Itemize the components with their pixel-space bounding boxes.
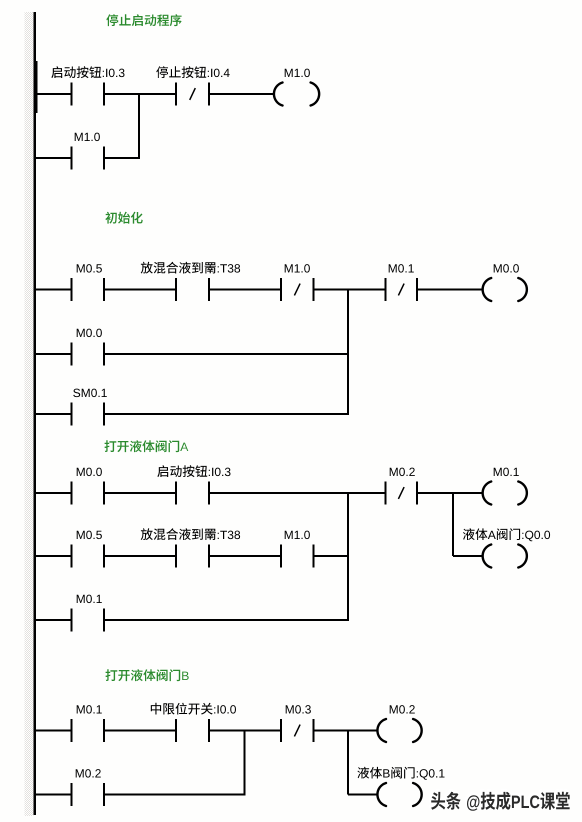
label M0.5 n3	[77, 531, 102, 540]
coil drop wire network4	[347, 731, 378, 796]
label M0.1 coil	[494, 468, 519, 477]
contact 放混合液到罱 T38	[175, 545, 210, 568]
label M1.0 NC	[285, 264, 310, 273]
contact M0.2	[71, 783, 106, 806]
contact M0.3 (NC)	[280, 719, 315, 742]
contact M0.1	[71, 609, 106, 632]
network 1 title 停止启动程序	[106, 14, 181, 26]
contact M0.2 (NC)	[385, 482, 419, 505]
branch wire network2 vertical	[347, 290, 349, 415]
coil drop wire network3	[452, 493, 484, 557]
label M0.0 coil	[494, 264, 519, 273]
editor left margin strip	[25, 12, 34, 816]
label M0.2 coil	[390, 705, 415, 714]
wire rung4	[34, 353, 349, 355]
coil 液体B阀门 Q0.1	[377, 783, 421, 806]
label M0.2 contact n4	[76, 769, 101, 778]
wire rung6	[34, 492, 484, 494]
label M1.0 contact n3	[285, 531, 310, 540]
wire rung2	[34, 157, 140, 159]
wire rung1	[34, 93, 275, 95]
coil 液体A阀门 Q0.0	[483, 545, 527, 568]
coil M1.0	[274, 83, 319, 106]
label M1.0 contact	[75, 133, 100, 142]
contact 中限位开关 I0.0	[175, 719, 210, 742]
contact 启动按钮 I0.3	[175, 482, 210, 505]
contact M0.1 (NC)	[385, 278, 419, 301]
network 2 title 初始化	[105, 212, 142, 224]
wire rung8	[34, 619, 349, 621]
coil M0.0	[483, 278, 527, 301]
label 液体B阀门:Q0.1	[357, 767, 444, 780]
contact 放混合液到罱 T38	[175, 278, 210, 301]
contact SM0.1	[71, 403, 106, 426]
label 启动按钮:I0.3	[51, 66, 124, 78]
label 液体A阀门:Q0.0	[463, 528, 550, 541]
label M0.1 NC	[389, 264, 414, 273]
label 启动按钮:I0.3 n3	[157, 465, 230, 477]
label M0.0 contact	[77, 329, 102, 338]
label M0.1 contact n4	[77, 705, 102, 714]
contact M0.5	[71, 278, 106, 301]
contact M1.0	[71, 147, 106, 170]
network 3 title 打开液体阀门A	[105, 440, 189, 452]
network 4 title 打开液体阀门B	[106, 669, 189, 681]
wire rung7	[34, 555, 349, 557]
label M0.5	[77, 264, 102, 273]
contact M0.1	[71, 719, 106, 742]
contact 启动按钮 I0.3	[71, 83, 106, 106]
branch wire network3 vertical	[347, 493, 349, 620]
label 中限位开关:I0.0	[151, 703, 236, 715]
label 放混合液到罱:T38	[141, 262, 240, 274]
wire rung10	[34, 794, 246, 796]
label M1.0 coil	[285, 69, 310, 78]
contact M1.0	[280, 545, 315, 568]
wire rung9	[34, 730, 378, 732]
contact M0.0	[71, 482, 106, 505]
left power rail	[34, 12, 37, 815]
watermark 头条@技成PLC课堂	[430, 790, 570, 811]
label 停止按钮:I0.4	[156, 66, 229, 78]
wire rung5	[34, 413, 349, 415]
label M0.1 contact n3	[77, 595, 102, 604]
contact M1.0 (NC)	[280, 278, 315, 301]
wire rung3	[34, 289, 484, 291]
power rail thick segment (network 1)	[34, 61, 38, 113]
branch wire network4 mid vertical	[244, 731, 246, 795]
contact M0.5	[71, 545, 106, 568]
contact 停止按钮 I0.4 (NC)	[175, 83, 210, 106]
branch wire network1 vertical	[138, 94, 140, 158]
coil M0.1	[483, 482, 527, 505]
label M0.3 NC	[286, 705, 311, 714]
label SM0.1	[73, 389, 107, 398]
label M0.2 NC	[390, 468, 415, 477]
coil M0.2	[377, 719, 421, 742]
label M0.0 contact n3	[77, 468, 102, 477]
contact M0.0	[71, 343, 106, 366]
label 放混合液到罱:T38 n3	[141, 528, 240, 540]
